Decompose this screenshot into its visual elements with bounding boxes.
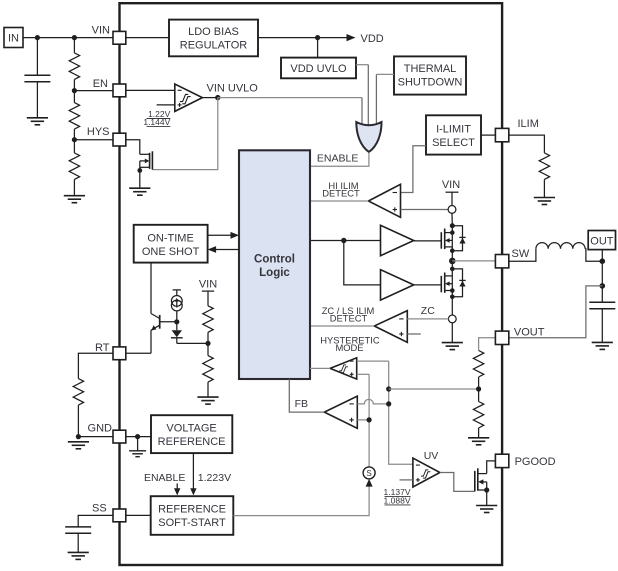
supply bar VIN: [446, 192, 459, 205]
summing node S: [363, 467, 375, 479]
wire SW pin to inductor: [509, 249, 536, 261]
node LS source: [450, 295, 455, 300]
node VDD junction: [315, 35, 320, 40]
pin ILIM: [495, 128, 508, 141]
arrowhead into summing node: [366, 479, 373, 487]
op-amp HYSTERETIC MODE comparator: [330, 358, 357, 379]
svg-text:VIN UVLO: VIN UVLO: [207, 82, 259, 94]
svg-text:ENABLE: ENABLE: [144, 472, 185, 484]
svg-text:ILIM: ILIM: [518, 118, 539, 130]
wire VDD UVLO to OR gate: [356, 64, 368, 66]
wire IN to VIN pin: [23, 37, 113, 39]
ground output cap: [592, 342, 613, 349]
node HS drain: [450, 223, 455, 228]
wire HI ILIM output to control logic: [310, 200, 368, 202]
current sense circle: [448, 206, 456, 214]
supply bar current source: [173, 290, 181, 296]
wire FB plus to S line: [357, 419, 369, 421]
node LS drain: [450, 267, 455, 272]
svg-text:VDD: VDD: [361, 33, 384, 45]
node sense junction: [600, 283, 606, 289]
svg-text:S: S: [366, 469, 371, 478]
ON-TIME ONE SHOT block: [134, 225, 208, 263]
node FB minus junction: [386, 401, 391, 406]
node FB plus junction: [367, 417, 372, 422]
pin VIN: [113, 31, 126, 44]
svg-text:Control: Control: [254, 254, 295, 266]
svg-text:EN: EN: [93, 78, 108, 90]
wire I-LIMIT to HI ILIM minus: [401, 146, 427, 193]
pin SS: [113, 509, 126, 522]
pin HYS: [113, 133, 126, 146]
Control Logic block: [239, 150, 310, 379]
node HYS junction: [72, 137, 77, 142]
svg-text:Logic: Logic: [259, 267, 290, 279]
svg-text:DETECT: DETECT: [322, 187, 360, 198]
wire soft-start output to summing node: [233, 486, 369, 516]
node source-bulk tie: [137, 168, 142, 173]
resistor divider upper: [473, 351, 483, 390]
ground ILIM: [534, 198, 555, 205]
resistor ILIM set: [509, 135, 550, 197]
wire HYS pin to FET drain: [126, 140, 140, 155]
pin PGOOD: [495, 454, 508, 467]
capacitor output: [589, 302, 615, 342]
wire inductor to output node: [585, 249, 602, 261]
node internal ground: [135, 434, 140, 439]
ground internal: [129, 437, 146, 457]
diode body D1: [452, 226, 465, 251]
node FB sense tap: [386, 386, 391, 391]
node OUT box: [588, 231, 615, 250]
ground power stage: [442, 343, 463, 350]
wire sense to HS drain: [451, 213, 453, 225]
transistor Q1 high-side FET: [441, 229, 452, 250]
driver A buffer: [381, 225, 414, 255]
wire UV plus stub: [400, 479, 413, 481]
node output junction: [600, 258, 606, 264]
wire one-shot to control logic (arrow): [208, 232, 239, 239]
svg-text:RT: RT: [95, 342, 110, 354]
svg-text:REFERENCE: REFERENCE: [158, 503, 226, 515]
pin SW: [495, 255, 508, 268]
node divider tap: [476, 386, 481, 391]
resistor HYS-GND: [69, 140, 79, 196]
wire OR output ENABLE: [310, 153, 369, 167]
wire VOUT sense: [509, 286, 603, 338]
wire FET column vertical: [451, 226, 453, 315]
svg-text:HYS: HYS: [87, 126, 110, 138]
gate OR (enable logic): [356, 122, 381, 152]
ground on-time: [197, 397, 218, 404]
ground divider internal: [468, 438, 489, 445]
wire BJT emitter to RT: [150, 330, 152, 353]
wire SS pin to soft-start: [126, 514, 151, 516]
svg-text:MODE: MODE: [335, 342, 363, 353]
svg-text:ZC: ZC: [421, 305, 435, 317]
pin EN: [113, 84, 126, 97]
svg-text:OUT: OUT: [590, 236, 614, 248]
VOLTAGE REFERENCE block: [151, 415, 232, 453]
svg-text:ENABLE: ENABLE: [317, 153, 358, 165]
node timing junction: [174, 319, 179, 324]
ground PGOOD: [476, 506, 497, 513]
op-amp EN/VIN UVLO comparator: [175, 84, 203, 111]
wire control logic to drivers: [310, 241, 381, 285]
svg-text:SHUTDOWN: SHUTDOWN: [398, 77, 463, 89]
VDD arrowhead: [347, 34, 356, 41]
svg-text:VIN: VIN: [442, 179, 460, 191]
svg-text:IN: IN: [8, 33, 19, 45]
svg-text:UV: UV: [424, 450, 439, 462]
ground divider: [64, 196, 85, 203]
I-LIMIT SELECT block: [426, 115, 481, 154]
node IN box: [4, 28, 23, 48]
node EN junction: [72, 88, 77, 93]
op-amp UV comparator: [413, 458, 440, 487]
wire FB minus with hop: [357, 399, 388, 404]
wire HI ILIM plus to VIN sense: [401, 209, 449, 211]
ground RT: [68, 442, 89, 449]
wire reference stub to plus input: [157, 104, 175, 106]
driver B buffer: [381, 270, 414, 300]
node RT-GND junction: [76, 434, 81, 439]
wire I-LIMIT to ILIM pin: [481, 134, 495, 136]
node LS source stub: [450, 288, 455, 293]
wire EN pin to comparator: [126, 89, 175, 91]
LDO BIAS REGULATOR U-block: [169, 20, 258, 57]
ground HYS FET: [129, 188, 150, 195]
svg-text:VIN: VIN: [199, 279, 217, 291]
wire SW node to pin: [452, 260, 495, 262]
wire junction to GND pin: [78, 436, 113, 438]
node VIN UVLO junction: [215, 95, 220, 100]
value label 1.137V / 1.088V: [384, 487, 411, 505]
svg-text:LDO BIAS: LDO BIAS: [188, 26, 239, 38]
svg-text:1.223V: 1.223V: [198, 472, 231, 484]
resistor RT timing: [73, 353, 113, 436]
svg-text:SOFT-START: SOFT-START: [158, 517, 226, 529]
wire GND pin to voltage reference: [126, 436, 151, 438]
svg-text:VOUT: VOUT: [514, 327, 545, 339]
wire HYS junction to pin: [74, 139, 113, 141]
svg-text:VOLTAGE: VOLTAGE: [166, 423, 216, 435]
capacitor soft-start: [65, 515, 113, 552]
wire FB sense line: [389, 361, 413, 464]
resistor divider lower: [473, 389, 483, 438]
svg-text:REGULATOR: REGULATOR: [180, 40, 247, 52]
wire hysteretic output to control logic: [310, 367, 330, 369]
op-amp ZC / LS ILIM DETECT comparator: [374, 311, 407, 343]
wire comparator output: [202, 97, 217, 99]
op-amp HI ILIM DETECT comparator: [368, 184, 400, 217]
wire ENABLE arrow into soft-start: [174, 483, 180, 495]
zero-cross sense circle: [448, 315, 456, 323]
wire 1.223V reference (arrow): [190, 453, 196, 495]
ground input cap: [27, 118, 48, 125]
capacitor input: [24, 38, 50, 118]
pin VOUT: [495, 331, 508, 344]
wire FB output to control logic: [289, 379, 324, 412]
transistor HYS pulldown FET: [140, 151, 153, 169]
diode body D2: [452, 269, 465, 297]
resistor on-time lower: [203, 343, 213, 397]
svg-text:1.088V: 1.088V: [384, 495, 411, 505]
supply bar VIN on-time: [202, 291, 214, 306]
wire VOUT pin to divider: [479, 338, 496, 351]
VDD UVLO block: [281, 58, 356, 79]
svg-text:SELECT: SELECT: [432, 137, 475, 149]
wire VIN UVLO down to HYS FET gate: [152, 98, 217, 170]
wire UV output to PGOOD gate: [440, 473, 475, 492]
wire one-shot to timing transistor: [150, 263, 152, 314]
node on-time set: [205, 341, 210, 346]
svg-text:FB: FB: [295, 398, 308, 410]
op-amp FB comparator: [324, 396, 357, 428]
wire ZC minus to sense: [407, 318, 448, 320]
resistor EN-HYS: [69, 91, 79, 140]
wire PGOOD drain to pin: [487, 461, 496, 474]
wire EN junction to pin: [74, 90, 113, 92]
THERMAL SHUTDOWN block: [394, 56, 466, 94]
wire tap to divider: [389, 388, 479, 390]
svg-text:ON-TIME: ON-TIME: [147, 233, 193, 245]
transistor Q2 low-side FET: [441, 273, 452, 293]
node HS source: [450, 248, 455, 253]
wire hysteretic plus to S line: [357, 373, 369, 375]
junction input cap: [35, 35, 40, 40]
wire gate LS: [414, 284, 442, 286]
svg-text:GND: GND: [88, 423, 113, 435]
diode timing: [171, 330, 183, 343]
wire PGOOD source to ground: [486, 482, 488, 505]
inductor L1: [536, 243, 585, 249]
svg-text:ONE SHOT: ONE SHOT: [142, 246, 200, 258]
wire THERMAL SHUTDOWN to OR gate: [376, 73, 394, 75]
wire VDD to VDD UVLO: [317, 38, 319, 58]
svg-text:I-LIMIT: I-LIMIT: [436, 124, 471, 136]
wire VIN UVLO to OR gate: [218, 97, 362, 99]
node SW: [449, 258, 456, 265]
node driver input junction: [341, 238, 346, 243]
resistor VIN-EN: [69, 38, 79, 91]
wire current source to node: [176, 311, 178, 330]
ground soft-start cap: [68, 552, 89, 559]
resistor on-time upper: [203, 306, 213, 344]
transistor timing BJT: [151, 314, 177, 331]
node HS drain stub: [450, 230, 455, 235]
svg-text:PGOOD: PGOOD: [515, 456, 556, 468]
wire ZC plus stub: [407, 333, 421, 335]
wire diode to VIN resistor node: [177, 342, 208, 344]
wire gate HS: [414, 240, 442, 242]
svg-text:REFERENCE: REFERENCE: [158, 436, 226, 448]
node PGOOD source tie: [484, 487, 489, 492]
svg-text:SS: SS: [92, 503, 107, 515]
REFERENCE SOFT-START block: [151, 496, 234, 535]
svg-text:DETECT: DETECT: [330, 313, 368, 324]
wire OUT box down: [601, 250, 603, 303]
svg-text:SW: SW: [512, 248, 530, 260]
svg-text:THERMAL: THERMAL: [404, 63, 457, 75]
current source I1: [171, 296, 182, 311]
junction divider top: [72, 35, 77, 40]
wire VIN pin to LDO: [126, 37, 169, 39]
wire LDO to VDD arrow: [258, 37, 351, 39]
wire ZC output to control logic: [310, 325, 374, 327]
svg-text:1.144V: 1.144V: [143, 117, 170, 127]
svg-text:VIN: VIN: [92, 25, 110, 37]
wire control logic to one-shot (arrow): [208, 246, 239, 253]
wire S line: [368, 374, 370, 467]
wire RT pin to BJT: [126, 352, 151, 354]
pin RT: [113, 347, 126, 360]
wire LS source to ground: [451, 323, 453, 343]
svg-text:VDD UVLO: VDD UVLO: [290, 63, 347, 75]
value label 1.22V / 1.144V: [143, 109, 170, 127]
wire hysteretic minus to FB sense: [357, 360, 389, 362]
IC boundary: [120, 3, 503, 565]
pin GND: [113, 430, 126, 443]
transistor PGOOD FET: [475, 468, 487, 491]
wire FET source to ground: [139, 161, 141, 188]
